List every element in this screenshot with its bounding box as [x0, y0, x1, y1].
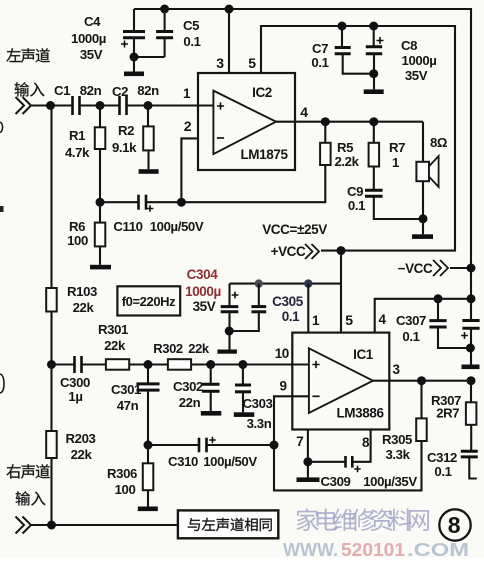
ground C8 — [364, 89, 384, 94]
capacitor C310 100u/50V — [198, 438, 201, 453]
op-amp IC1 LM3886 box — [292, 333, 389, 430]
svg-text:R103: R103 — [67, 284, 97, 299]
capacitor C301 47n — [147, 365, 149, 384]
box same-as-left-channel — [178, 510, 278, 538]
capacitor C9 0.1 — [365, 189, 383, 192]
wire IC2 output pin4 — [276, 121, 423, 123]
svg-text:82n: 82n — [137, 83, 159, 98]
svg-text:9: 9 — [279, 379, 286, 394]
node C5 top junction — [160, 5, 169, 14]
svg-text:R302: R302 — [153, 341, 183, 356]
svg-text:C307: C307 — [396, 313, 426, 328]
svg-text:22k: 22k — [188, 341, 210, 356]
input arrow right channel — [16, 517, 32, 534]
node -VCC rail pin4 — [467, 294, 476, 303]
circled number 8 — [439, 509, 470, 540]
svg-text:C304: C304 — [187, 267, 219, 282]
svg-text:100µ/50V: 100µ/50V — [150, 219, 204, 234]
node R1/R6/C110 junction — [96, 198, 105, 207]
svg-text:C5: C5 — [183, 18, 199, 33]
svg-text:C1: C1 — [54, 83, 70, 98]
svg-text:3.3n: 3.3n — [247, 416, 272, 431]
ground C304 — [217, 350, 237, 354]
capacitor C305 0.1 — [258, 284, 260, 307]
capacitor C1 82n — [71, 96, 74, 115]
resistor R301 22k — [106, 359, 129, 370]
svg-text:VCC=±25V: VCC=±25V — [262, 222, 327, 237]
node pin3 rail junction — [225, 5, 234, 14]
pin 4 wire IC1 to -VCC rail — [375, 299, 471, 333]
IC2 + input mark — [217, 102, 224, 109]
node C304/C305 ground junction — [225, 327, 234, 336]
svg-text:C312: C312 — [427, 450, 457, 465]
svg-text:4: 4 — [300, 104, 308, 120]
svg-text:R2: R2 — [118, 123, 134, 138]
node input / R103 branch — [46, 101, 55, 110]
svg-text:0.1: 0.1 — [434, 464, 451, 479]
resistor R1 4.7k — [99, 106, 101, 128]
resistor R5 2.2k — [324, 122, 326, 143]
resistor R6 100 — [99, 202, 101, 222]
svg-text:C301: C301 — [111, 382, 141, 397]
wire C4-C5 bottom link — [134, 56, 165, 58]
svg-text:100: 100 — [115, 482, 136, 497]
capacitor C110 100u/50V — [137, 195, 140, 210]
node C301/R306/C310 — [144, 441, 153, 450]
svg-text:R305: R305 — [382, 432, 412, 447]
node C305 tap — [255, 279, 263, 287]
svg-text:R5: R5 — [337, 140, 353, 155]
svg-text:100µ/35V: 100µ/35V — [363, 474, 417, 489]
svg-text:0.1: 0.1 — [348, 198, 365, 213]
ground C308 — [462, 365, 480, 370]
capacitor C7 0.1 — [341, 26, 343, 47]
svg-text:C4: C4 — [84, 14, 101, 29]
svg-text:C110: C110 — [113, 219, 142, 234]
svg-text:R6: R6 — [69, 219, 85, 234]
svg-text:f0=220Hz: f0=220Hz — [122, 294, 176, 309]
svg-text:8: 8 — [448, 512, 461, 538]
svg-text:22k: 22k — [104, 338, 126, 353]
svg-text:0.1: 0.1 — [311, 55, 328, 70]
resistor R305 3.3k — [420, 381, 422, 419]
ground R306 — [138, 507, 158, 512]
IC1 + input mark — [312, 361, 319, 368]
svg-text:1: 1 — [312, 313, 320, 328]
svg-text:1µ: 1µ — [68, 389, 82, 404]
node C8 top — [369, 22, 378, 31]
svg-text:47n: 47n — [117, 398, 139, 413]
resistor R2 9.1k — [147, 106, 149, 127]
svg-text:9.1k: 9.1k — [112, 140, 137, 155]
svg-text:4.7k: 4.7k — [65, 145, 90, 160]
svg-text:1000µ: 1000µ — [185, 284, 221, 299]
pin 9 wire to feedback — [274, 396, 309, 445]
scan artifact left edge 3 — [0, 374, 4, 393]
node C7 top — [338, 22, 347, 31]
svg-text:WWW.: WWW. — [283, 539, 338, 558]
node C303 tap — [238, 360, 247, 369]
svg-text:22k: 22k — [71, 447, 93, 462]
capacitor C4 1000u/35V electrolytic — [133, 9, 135, 31]
svg-text:LM3886: LM3886 — [336, 406, 384, 421]
svg-text:10: 10 — [275, 346, 289, 361]
ground for C4/C5 — [133, 57, 135, 72]
resistor R306 100 — [147, 445, 149, 463]
watermark chinese site name — [296, 508, 318, 531]
wire pin1 IC1 — [307, 284, 309, 333]
svg-text:.COM: .COM — [407, 539, 469, 558]
svg-text:C309: C309 — [321, 474, 351, 489]
svg-text:C310: C310 — [168, 454, 198, 469]
svg-text:C300: C300 — [60, 375, 90, 390]
svg-text:5: 5 — [248, 55, 256, 71]
pin 3 wire IC2 — [228, 9, 230, 73]
pin 7 wire IC1 — [307, 430, 309, 478]
wire right input line — [31, 524, 178, 526]
ground R6 — [90, 265, 111, 270]
f0 box — [117, 286, 180, 315]
svg-text:IC2: IC2 — [252, 85, 272, 100]
node C307/C308 ground junction — [466, 344, 475, 353]
svg-text:C2: C2 — [112, 84, 128, 99]
wire +VCC rail (pin5 rail y=26 right, down x=455, left to +VCC arrow) — [261, 26, 455, 251]
svg-text:1: 1 — [392, 155, 399, 170]
resistor R203 22k — [50, 365, 52, 432]
svg-text:R1: R1 — [69, 128, 85, 143]
node -VCC tap — [467, 264, 476, 273]
svg-text:C305: C305 — [272, 294, 304, 309]
speaker 8ohm — [422, 122, 424, 162]
capacitor C307 0.1 — [437, 299, 439, 321]
svg-text:R7: R7 — [389, 140, 405, 155]
node feedback pin2 — [177, 198, 186, 207]
wire left channel tap down — [50, 106, 52, 289]
node output-R307 — [467, 376, 476, 385]
wire node row to C310 — [148, 444, 274, 446]
capacitor C2 82n — [118, 96, 121, 115]
ground R2 — [139, 169, 159, 174]
node feedback right channel — [270, 441, 279, 450]
svg-text:3: 3 — [216, 55, 224, 71]
node pin7/C309 — [303, 457, 312, 466]
svg-text:82n: 82n — [80, 83, 102, 98]
input arrow left channel — [16, 97, 32, 114]
svg-text:520101: 520101 — [341, 539, 405, 558]
wire main input line — [31, 104, 213, 106]
svg-text:LM1875: LM1875 — [240, 147, 288, 162]
svg-text:4: 4 — [378, 312, 386, 327]
pin 2 wire to feedback node — [181, 138, 198, 202]
op-amp IC2 LM1875 box — [198, 73, 295, 170]
svg-text:1: 1 — [183, 86, 191, 101]
node C1-C2 / R1 branch — [96, 101, 105, 110]
resistor R103 22k — [46, 288, 57, 312]
svg-text:C8: C8 — [401, 38, 417, 53]
wire pin5 IC1 from +VCC — [340, 251, 342, 333]
svg-text:R203: R203 — [66, 431, 96, 446]
svg-text:R301: R301 — [98, 322, 128, 337]
scan artifact left edge 1 — [0, 122, 3, 133]
node C302 tap — [206, 360, 215, 369]
svg-text:0.1: 0.1 — [402, 329, 419, 344]
label left channel input — [6, 48, 20, 62]
capacitor C302 22n — [210, 365, 212, 385]
svg-text:−VCC: −VCC — [398, 261, 433, 276]
capacitor C308 electrolytic on -VCC — [462, 319, 479, 322]
node C307 top — [434, 294, 443, 303]
svg-text:R306: R306 — [107, 466, 137, 481]
IC2 - input mark — [217, 137, 224, 139]
svg-text:100: 100 — [67, 233, 88, 248]
svg-text:1000µ: 1000µ — [402, 53, 437, 68]
capacitor C303 3.3n — [242, 365, 244, 385]
node C2 out / R2 branch — [144, 101, 153, 110]
label right channel input — [6, 464, 20, 478]
capacitor C8 1000u/35V electrolytic — [373, 26, 375, 47]
wire junction to C110 — [100, 201, 139, 203]
node right input tap — [47, 521, 56, 530]
wire right channel filter line — [52, 363, 309, 365]
resistor R307 2R7 — [470, 381, 472, 403]
svg-text:C302: C302 — [173, 379, 203, 394]
node C4/C5 bottom junction — [130, 53, 139, 62]
svg-text:22k: 22k — [73, 300, 95, 315]
svg-text:C303: C303 — [243, 396, 273, 411]
svg-text:3: 3 — [392, 362, 400, 377]
ground C302 — [201, 411, 222, 416]
node output-R7 — [369, 117, 378, 126]
node +VCC to IC1 pin5 drop — [337, 246, 346, 255]
op-amp IC2 triangle — [213, 91, 276, 155]
svg-text:22n: 22n — [179, 395, 201, 410]
svg-text:C9: C9 — [347, 184, 363, 199]
svg-text:100µ/50V: 100µ/50V — [203, 454, 257, 469]
svg-text:8: 8 — [362, 435, 370, 450]
capacitor C309 100u/35V — [308, 430, 371, 462]
node pin1 tap — [304, 279, 312, 287]
node speaker bottom — [419, 214, 428, 223]
svg-text:C7: C7 — [312, 41, 328, 56]
svg-text:7: 7 — [296, 434, 303, 449]
ground C303 — [234, 412, 255, 417]
capacitor C312 0.1 — [461, 450, 478, 453]
svg-text:5: 5 — [345, 312, 353, 328]
wire IC1 supply rail — [230, 283, 342, 285]
svg-text:0.1: 0.1 — [183, 34, 200, 49]
IC1 - input mark — [312, 395, 319, 397]
wire IC1 output pin3 — [373, 380, 471, 382]
svg-text:1000µ: 1000µ — [71, 31, 106, 46]
node R301-R302 / C301 — [144, 360, 153, 369]
node output-R5 — [321, 117, 330, 126]
svg-text:IC1: IC1 — [353, 347, 374, 362]
svg-text:2R7: 2R7 — [436, 406, 459, 421]
ground pin7 — [297, 477, 320, 482]
scan artifact left edge 2 — [0, 206, 4, 212]
wire R305 bottom feedback loop — [274, 441, 422, 490]
svg-text:2.2k: 2.2k — [334, 154, 359, 169]
capacitor C304 1000u/35V electrolytic — [228, 284, 230, 307]
ground speaker — [412, 234, 433, 239]
svg-text:8Ω: 8Ω — [430, 135, 448, 150]
svg-text:35V: 35V — [80, 47, 103, 62]
resistor R302 22k — [168, 359, 191, 370]
wire R5 bottom to feedback node — [146, 165, 325, 202]
resistor R7 1 — [373, 122, 375, 143]
node output-R305 — [417, 376, 426, 385]
svg-text:3.3k: 3.3k — [385, 447, 410, 462]
svg-text:35V: 35V — [193, 299, 216, 314]
op-amp IC1 triangle — [309, 348, 373, 413]
wire -VCC rail top (pin3 rail y=9 to right edge down x=471) — [134, 9, 471, 321]
capacitor C300 1u — [73, 356, 76, 373]
svg-text:0.1: 0.1 — [282, 309, 300, 324]
capacitor C5 0.1 — [164, 9, 166, 31]
node mid left junction — [47, 360, 56, 369]
svg-text:+VCC: +VCC — [271, 244, 306, 259]
svg-text:35V: 35V — [405, 68, 428, 83]
svg-text:2: 2 — [184, 118, 192, 134]
node C7/C8 bottom — [369, 69, 378, 78]
